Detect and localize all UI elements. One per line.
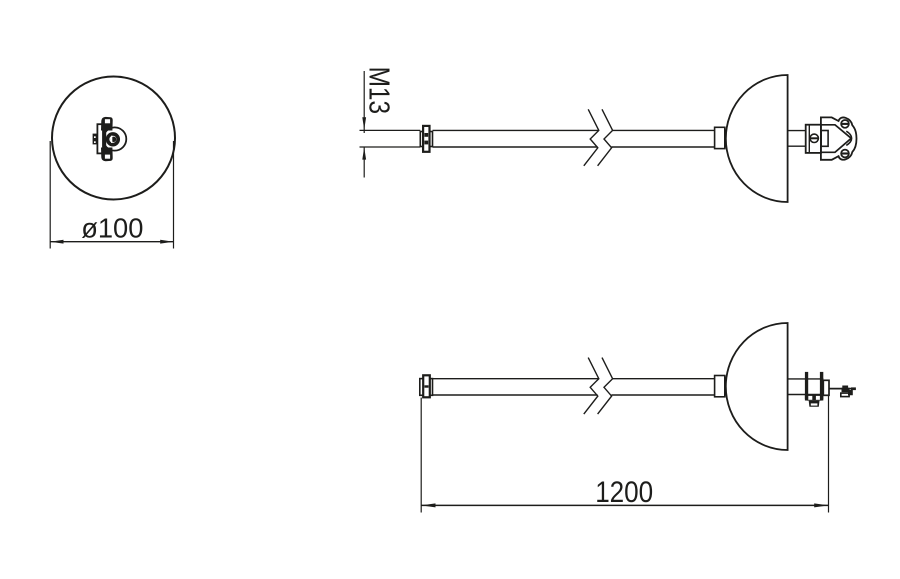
fork small rect [821,131,828,147]
clamp block divider [808,125,810,153]
rod bottom view: upper line right segment [613,378,715,380]
wing knob body [842,388,853,396]
stub rod right of dome bottom view [788,378,824,380]
clamp right plate bottom view [823,380,829,395]
rod bottom view: lower line left segment [433,394,598,396]
rod top view: lower line left segment [433,146,598,148]
fork wedge upper line [821,125,851,139]
dimension M13: lower dimension line [363,147,365,177]
clamp front view: inner hub [111,137,116,142]
clamp lower block bottom view [809,401,820,407]
clamp front view: outer ring [103,127,126,150]
clamp U jaw bottom view [805,395,823,401]
clamp front view: bottom finger [101,148,113,162]
mirror dome bottom view [726,323,788,450]
clamp block top view [806,125,821,153]
dimension ø100: right arrow [160,240,173,244]
collar top view [420,132,432,147]
cap collar bottom view [420,379,433,396]
dimension 1200: right arrow [814,503,828,507]
mirror disc front view [52,77,175,200]
clamp front view: hub slit [111,136,112,143]
screw shaft tip [851,387,856,390]
clamp front view: thick annulus [108,134,119,145]
dimension M13: upper arrow [362,117,366,129]
dimension 1200: left arrow [421,503,435,507]
pin top view [423,126,429,152]
clamp front view: left tab [93,134,98,145]
cap pin bottom view [423,375,430,397]
dimension 1200: left extension line [420,398,422,513]
mirror dome top view [726,75,788,202]
cap pin band [425,385,429,387]
clamp front view: inner bar [103,125,107,153]
fork top screw [841,120,849,128]
break symbol bottom view: left zigzag [584,358,599,415]
wing knob slot [841,393,849,397]
wing knob top tab [842,386,848,388]
hub block top view [715,127,725,148]
fork bracket top view [821,117,857,159]
clamp posts bottom view [805,372,808,401]
fork inner arc [846,131,851,145]
pin top view: bands [424,133,428,137]
clamp front view: top finger [101,117,113,131]
dimension M13: upper dimension line [363,71,365,133]
threaded rod end top view: lower line [360,146,421,148]
dimension 1200: right extension line [828,396,830,513]
clamp front view: top finger notch [105,119,110,123]
svg-text:1200: 1200 [595,476,653,509]
dimension ø100: left extension line [49,141,51,249]
clamp front view: bottom finger notch [105,155,110,159]
break symbol top view: right zigzag [598,109,613,166]
fork bottom screw [841,150,849,158]
dimension ø100: right extension line [173,141,175,249]
hub block bottom view [715,376,725,397]
dimension ø100: left arrow [50,240,63,244]
rod top view: upper line left segment [433,129,599,131]
dimension 1200: dimension line [421,504,828,506]
dimension M13: lower arrow [362,147,366,159]
clamp front view: tab holes [94,136,96,138]
stub rod right of dome top view [788,130,807,132]
clamp lower block slot [811,403,818,405]
rod bottom view: upper line left segment [433,378,599,380]
threaded rod end top view: upper line [360,129,421,131]
dimension ø100: dimension line [50,241,173,243]
clamp front view: plate [97,124,103,153]
break symbol top view: left zigzag [584,109,599,166]
clamp block screw [810,134,818,142]
fork wedge lower line [821,138,851,152]
break symbol bottom view: right zigzag [598,358,613,415]
svg-text:ø100: ø100 [81,213,143,244]
screw shaft bottom view [829,388,856,390]
clamp U jaw holes [808,396,812,400]
svg-text:M13: M13 [362,67,394,115]
rod top view: upper line right segment [613,129,715,131]
rod top view: lower line right segment [611,146,714,148]
rod bottom view: lower line right segment [611,394,714,396]
